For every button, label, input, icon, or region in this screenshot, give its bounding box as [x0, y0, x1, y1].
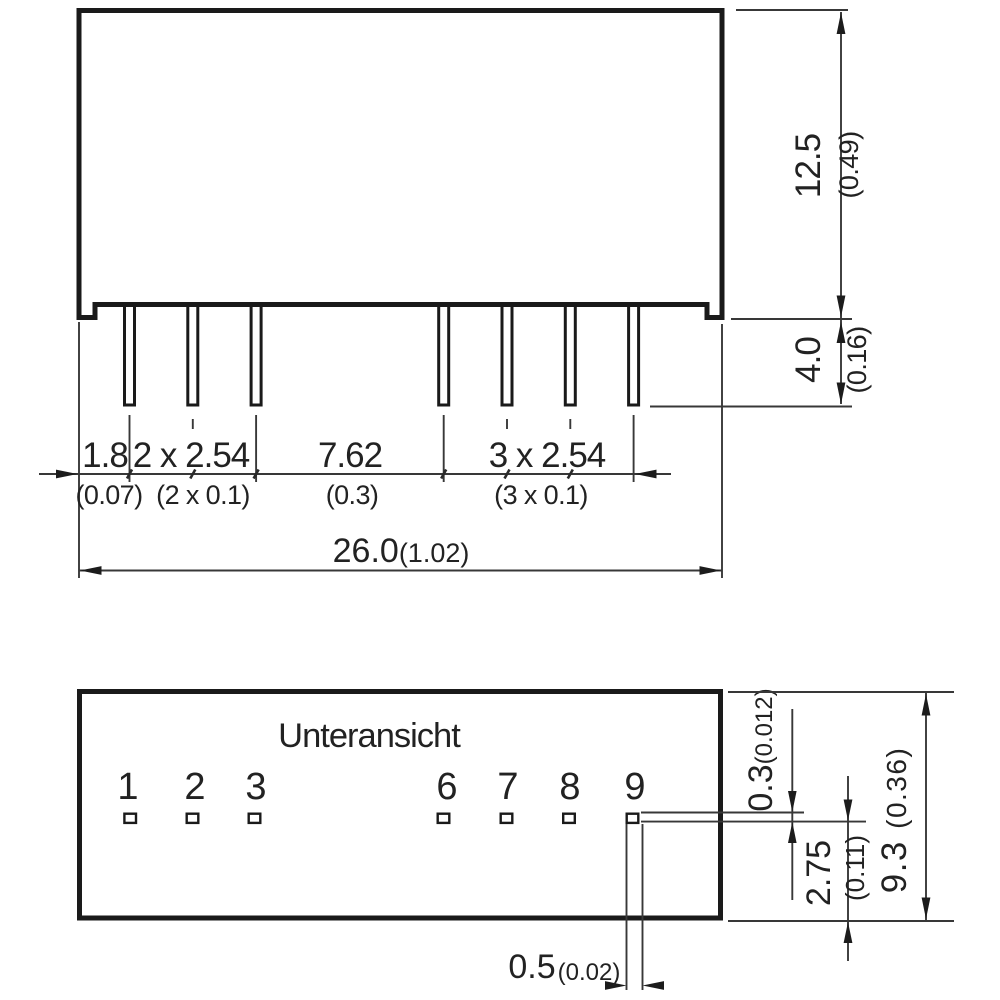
pin 3 (side view lead): [251, 304, 261, 405]
svg-text:(0.07): (0.07): [76, 480, 143, 510]
arrow up at body top: [837, 13, 846, 35]
arrow left (points right at body edge): [56, 470, 78, 479]
svg-text:Unteransicht: Unteransicht: [278, 717, 461, 755]
extension line pad9 right: [642, 824, 644, 990]
arrow up at pad bottom line: [788, 822, 797, 843]
arrow right (points right): [700, 566, 722, 575]
svg-text:9.3 (0.36): 9.3 (0.36): [875, 747, 914, 894]
tick pin4: [441, 470, 446, 479]
pad square 6: [438, 814, 450, 823]
svg-text:7.62: 7.62: [318, 436, 382, 475]
leader line pad9 top edge: [641, 812, 804, 814]
pad row dimension line 2.75: [847, 776, 849, 961]
svg-text:(0.49): (0.49): [834, 132, 864, 199]
extension line pin4 center: [443, 415, 445, 482]
tick pin1: [127, 470, 132, 479]
extension line seating plane: [731, 318, 852, 320]
svg-text:(0.11): (0.11): [840, 835, 870, 901]
arrow down at pad top line: [788, 791, 797, 812]
pin 4 (side view lead): [439, 304, 449, 405]
pin pitch dimension line: [39, 473, 671, 475]
extension line pin bottom: [650, 406, 852, 408]
extension line pin3 center: [255, 415, 257, 482]
leader line pad9 bottom edge: [641, 821, 866, 823]
extension line right body edge: [721, 324, 723, 578]
tick pin5: [505, 470, 510, 479]
svg-text:9: 9: [624, 766, 645, 808]
svg-text:0.5: 0.5: [508, 948, 555, 986]
overall width dimension line 26.0: [79, 570, 722, 572]
tick pin3: [254, 470, 259, 479]
pad size dimension line 0.3: [791, 709, 793, 900]
arrow right of 0.5 (points left): [643, 981, 665, 990]
pin 5 (side view lead): [502, 304, 512, 405]
pad square 8: [563, 814, 575, 823]
extension line body top: [736, 9, 848, 11]
svg-text:3 x 2.54: 3 x 2.54: [489, 436, 606, 475]
svg-text:2.75: 2.75: [800, 840, 838, 906]
arrow left (points left): [80, 566, 102, 575]
pad square 3: [249, 814, 261, 823]
extension line pin7 center: [633, 415, 635, 482]
svg-text:(3 x 0.1): (3 x 0.1): [494, 480, 588, 510]
pin 6 (side view lead): [565, 304, 575, 405]
arrow left of 0.5 (points right): [605, 981, 627, 990]
svg-text:12.5: 12.5: [789, 134, 828, 198]
arrow down at pin bottom: [837, 383, 846, 405]
extension line pad9 left: [626, 824, 628, 990]
tick pin6: [568, 470, 573, 479]
arrow down at pad line: [844, 800, 853, 821]
svg-text:8: 8: [559, 766, 580, 808]
extension line left body edge: [78, 322, 80, 578]
svg-text:26.0(1.02): 26.0(1.02): [333, 532, 470, 570]
extension line pin5 center (dashes): [506, 419, 508, 429]
svg-text:(2 x 0.1): (2 x 0.1): [156, 480, 250, 510]
extension line pin1 center: [129, 415, 131, 482]
arrow up at top edge: [922, 694, 931, 716]
arrow up at body bottom line: [844, 922, 853, 943]
arrow down at seating plane: [837, 296, 846, 318]
svg-text:6: 6: [436, 766, 457, 808]
pad square 2: [187, 814, 199, 823]
svg-text:1: 1: [117, 766, 138, 808]
arrow right (points left at pin7 line): [635, 470, 657, 479]
arrow down at bottom edge: [922, 898, 931, 920]
tick pin2: [190, 470, 195, 479]
svg-text:1.8: 1.8: [82, 436, 128, 475]
depth dimension line 9.3: [925, 693, 927, 920]
module body outline (side view): [79, 11, 722, 318]
extension line bottom-view top edge: [728, 691, 954, 693]
bottom view body rectangle: [80, 692, 721, 919]
arrow up below seating plane: [837, 322, 846, 344]
pad square 7: [501, 814, 513, 823]
height dimension line 12.5 / 4.0: [840, 12, 842, 404]
svg-text:4.0: 4.0: [789, 337, 828, 383]
pin 2 (side view lead): [188, 304, 198, 405]
svg-text:(0.3): (0.3): [326, 480, 379, 510]
svg-text:(0.02): (0.02): [558, 959, 621, 986]
svg-text:7: 7: [497, 766, 518, 808]
pad square 9: [627, 814, 639, 823]
pin 7 (side view lead): [629, 304, 639, 405]
svg-text:2 x 2.54: 2 x 2.54: [133, 436, 250, 475]
svg-text:2: 2: [184, 766, 205, 808]
pin 1 (side view lead): [125, 304, 135, 405]
extension line bottom-view bottom edge: [728, 920, 954, 922]
svg-text:(0.16): (0.16): [842, 327, 872, 394]
extension line pin2 center (dashes): [192, 419, 194, 429]
extension line pin6 center (dashes): [569, 419, 571, 429]
pad square 1: [124, 814, 136, 823]
svg-text:3: 3: [245, 766, 266, 808]
